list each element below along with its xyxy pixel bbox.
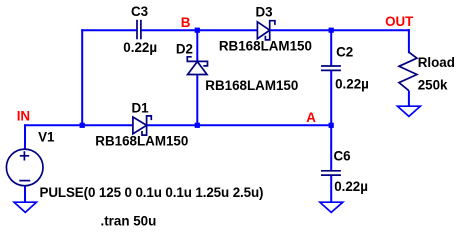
svg-text:0.22µ: 0.22µ <box>123 40 157 55</box>
wire: V1 bottom lead to ground <box>24 186 26 203</box>
wire: top rail junction to OUT corner <box>331 29 410 31</box>
wire: C2 branch top lead <box>330 30 332 66</box>
svg-text:Rload: Rload <box>418 55 455 70</box>
junction: top of C2 branch <box>329 28 334 33</box>
ground flag under Rload <box>398 106 421 116</box>
svg-text:D3: D3 <box>256 5 273 20</box>
wire: node B down to D2 cathode <box>196 30 198 61</box>
diode D2 (schottky, cathode up toward node B) <box>187 57 207 75</box>
resistor Rload (zigzag) <box>399 52 417 90</box>
svg-text:RB168LAM150: RB168LAM150 <box>95 133 188 148</box>
diode D3 (schottky, anode left) <box>257 21 275 40</box>
svg-text:C3: C3 <box>131 4 148 19</box>
svg-text:PULSE(0 125 0 0.1u 0.1u 1.25u: PULSE(0 125 0 0.1u 0.1u 1.25u 2.5u) <box>40 185 264 200</box>
svg-text:.tran 50u: .tran 50u <box>101 213 157 228</box>
svg-text:D1: D1 <box>132 100 150 115</box>
junction: node B <box>195 28 200 33</box>
wire: D2 anode down to lower rail <box>196 75 198 126</box>
wire: top-left horizontal (left corner to C3 left plate) <box>81 29 137 31</box>
wire: C2 bottom plate down to node A <box>330 70 332 125</box>
wire: left vertical (top corner down to lower rail) <box>81 29 83 125</box>
ground flag under V1 <box>14 202 36 212</box>
wire: lower rail D1 cathode to node A (through D2 foot junction) <box>147 124 331 126</box>
svg-text:V1: V1 <box>38 129 55 144</box>
wire: Rload bottom lead to ground <box>408 91 410 107</box>
wire: OUT corner down to Rload top lead <box>408 29 410 53</box>
svg-text:B: B <box>181 15 191 30</box>
junction: D2 anode meets lower rail <box>195 123 200 128</box>
junction: node A <box>329 123 334 128</box>
svg-text:OUT: OUT <box>385 14 414 29</box>
svg-text:0.22µ: 0.22µ <box>335 77 369 92</box>
svg-text:0.22µ: 0.22µ <box>334 179 368 194</box>
svg-text:A: A <box>306 110 316 125</box>
voltage source V1 (circle with plus/minus) <box>6 149 43 186</box>
wire: IN corner down to V1 top <box>24 124 26 149</box>
svg-text:IN: IN <box>17 109 30 124</box>
wire: top rail D3 cathode to C2 branch junction <box>270 29 331 31</box>
wire: top rail C3 to D3 anode (through node B) <box>141 29 258 31</box>
wire: node A down to C6 top plate <box>330 125 332 171</box>
svg-text:250k: 250k <box>418 78 448 93</box>
svg-text:C2: C2 <box>336 45 353 60</box>
svg-text:RB168LAM150: RB168LAM150 <box>205 78 298 93</box>
capacitor C6 <box>321 171 341 175</box>
wire: IN corner horizontal to D1 anode <box>24 124 133 126</box>
capacitor C2 <box>321 66 341 70</box>
capacitor C3 (series in top rail) <box>137 20 141 40</box>
junction: left vertical meets lower rail <box>80 123 85 128</box>
svg-text:C6: C6 <box>334 149 351 164</box>
svg-text:D2: D2 <box>176 42 193 57</box>
svg-text:RB168LAM150: RB168LAM150 <box>219 39 312 54</box>
ground flag under C6 <box>320 202 343 212</box>
diode D1 (schottky, anode left) <box>133 116 151 135</box>
wire: C6 bottom plate down to ground <box>330 175 332 202</box>
